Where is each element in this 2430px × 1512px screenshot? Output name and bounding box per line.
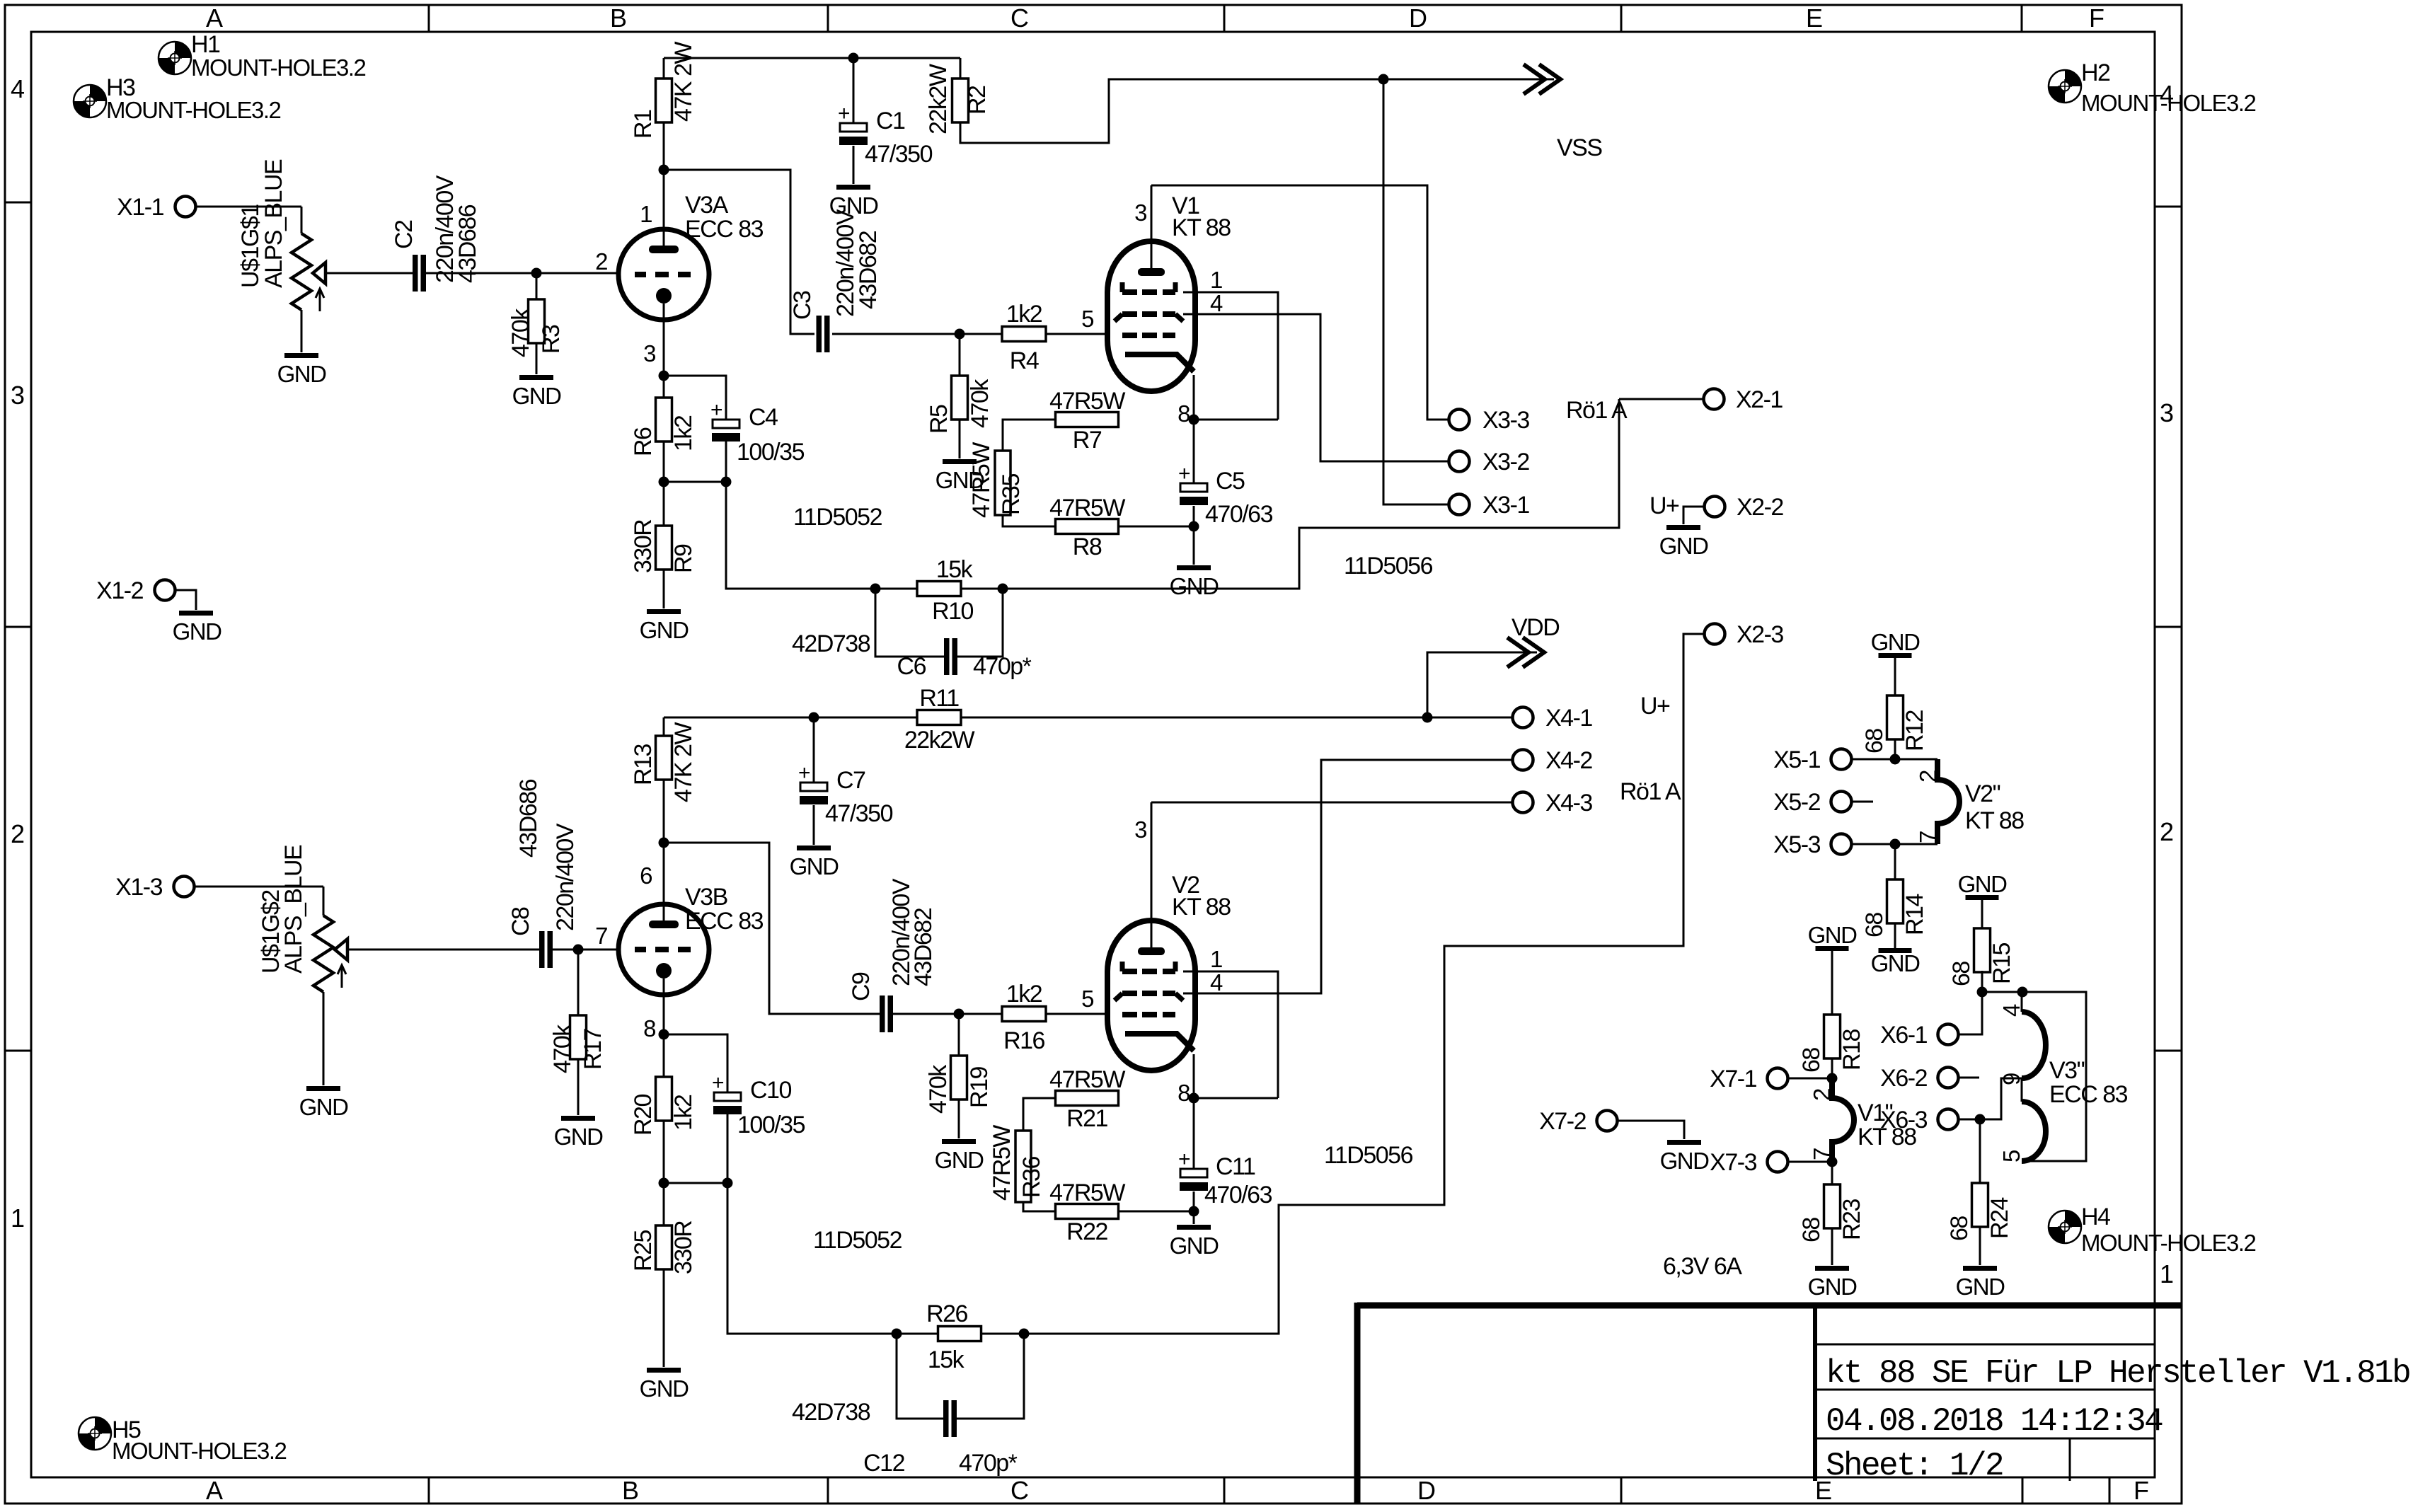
svg-text:47/350: 47/350 (865, 141, 933, 168)
svg-text:C6: C6 (897, 653, 926, 680)
svg-text:V3": V3" (2049, 1057, 2085, 1084)
svg-text:C: C (1010, 4, 1029, 33)
svg-text:47R5W: 47R5W (1049, 1179, 1125, 1206)
svg-text:+: + (838, 102, 850, 125)
svg-text:U+: U+ (1649, 492, 1679, 519)
svg-text:ECC 83: ECC 83 (2049, 1081, 2128, 1108)
svg-text:X4-1: X4-1 (1545, 705, 1592, 732)
svg-text:GND: GND (1871, 629, 1921, 655)
svg-text:C5: C5 (1216, 468, 1245, 495)
svg-text:ALPS_BLUE: ALPS_BLUE (260, 159, 287, 288)
svg-text:470p*: 470p* (973, 653, 1032, 680)
svg-text:GND: GND (1956, 1274, 2005, 1300)
svg-text:X1-3: X1-3 (115, 874, 162, 901)
svg-text:47R5W: 47R5W (1049, 1066, 1125, 1093)
svg-text:+: + (1178, 1148, 1190, 1171)
svg-text:C: C (1010, 1476, 1029, 1505)
svg-text:3: 3 (1134, 816, 1146, 843)
svg-text:R22: R22 (1066, 1218, 1107, 1245)
svg-text:MOUNT-HOLE3.2: MOUNT-HOLE3.2 (2081, 90, 2256, 116)
svg-text:100/35: 100/35 (737, 439, 805, 466)
svg-text:330R: 330R (670, 1221, 697, 1274)
svg-text:2: 2 (595, 248, 607, 275)
svg-text:1: 1 (2160, 1259, 2174, 1288)
svg-text:C10: C10 (750, 1077, 791, 1104)
svg-text:47K 2W: 47K 2W (670, 42, 697, 122)
svg-text:R26: R26 (926, 1300, 967, 1327)
svg-text:E: E (1806, 4, 1823, 33)
svg-text:2: 2 (2160, 817, 2174, 846)
svg-text:7: 7 (1915, 831, 1941, 843)
svg-text:5: 5 (1081, 306, 1093, 332)
svg-text:X5-1: X5-1 (1773, 746, 1820, 773)
svg-text:1k2: 1k2 (670, 1095, 697, 1131)
svg-text:R3: R3 (538, 325, 565, 354)
svg-text:R13: R13 (630, 744, 657, 785)
svg-text:1: 1 (11, 1204, 25, 1233)
svg-text:3: 3 (643, 340, 655, 367)
svg-text:47R5W: 47R5W (1049, 388, 1125, 415)
svg-text:47/350: 47/350 (825, 800, 893, 827)
svg-text:R17: R17 (580, 1029, 606, 1070)
svg-text:F: F (2089, 4, 2104, 33)
svg-text:4: 4 (1210, 290, 1223, 316)
svg-text:X7-2: X7-2 (1539, 1108, 1586, 1135)
svg-text:X2-3: X2-3 (1737, 621, 1783, 648)
svg-text:GND: GND (554, 1124, 604, 1150)
svg-text:68: 68 (1798, 1218, 1825, 1242)
svg-text:470k: 470k (549, 1024, 576, 1073)
svg-text:V3B: V3B (685, 884, 727, 911)
svg-text:R5: R5 (926, 405, 952, 434)
svg-text:2: 2 (11, 819, 25, 848)
svg-text:68: 68 (1798, 1048, 1825, 1073)
svg-text:6,3V 6A: 6,3V 6A (1663, 1253, 1742, 1280)
svg-text:R1: R1 (630, 110, 657, 139)
svg-text:X3-3: X3-3 (1482, 407, 1529, 434)
svg-text:GND: GND (790, 853, 839, 879)
svg-text:GND: GND (640, 1375, 689, 1402)
svg-text:43D686: 43D686 (454, 204, 481, 283)
svg-text:C4: C4 (749, 404, 778, 431)
svg-text:11D5052: 11D5052 (813, 1227, 902, 1254)
svg-text:11D5056: 11D5056 (1324, 1142, 1413, 1169)
svg-text:15k: 15k (936, 556, 974, 583)
svg-text:43D682: 43D682 (855, 231, 882, 309)
svg-text:X7-1: X7-1 (1710, 1066, 1756, 1092)
svg-text:X6-1: X6-1 (1880, 1022, 1927, 1049)
svg-text:1: 1 (1210, 267, 1222, 293)
svg-text:470k: 470k (967, 379, 994, 428)
svg-text:U+: U+ (1640, 693, 1670, 720)
svg-text:R25: R25 (630, 1230, 657, 1271)
svg-text:47R5W: 47R5W (989, 1125, 1015, 1201)
svg-text:4: 4 (1998, 1004, 2025, 1017)
svg-text:X2-1: X2-1 (1736, 386, 1783, 413)
svg-text:R14: R14 (1901, 894, 1928, 935)
svg-text:R15: R15 (1988, 943, 2015, 984)
svg-text:R23: R23 (1838, 1199, 1865, 1240)
svg-text:47K 2W: 47K 2W (670, 722, 697, 802)
svg-text:470k: 470k (925, 1064, 952, 1114)
svg-text:GND: GND (1808, 922, 1858, 948)
svg-text:11D5056: 11D5056 (1344, 553, 1433, 579)
svg-text:R20: R20 (630, 1095, 657, 1136)
svg-text:R12: R12 (1901, 710, 1928, 751)
svg-text:kt 88 SE Für LP Hersteller V1.: kt 88 SE Für LP Hersteller V1.81b (1826, 1355, 2409, 1392)
svg-text:R8: R8 (1073, 533, 1102, 560)
svg-text:100/35: 100/35 (737, 1112, 805, 1138)
svg-text:VSS: VSS (1557, 134, 1602, 161)
svg-text:11D5052: 11D5052 (793, 504, 882, 531)
svg-text:R6: R6 (630, 427, 657, 456)
svg-text:+: + (798, 761, 810, 785)
svg-text:X5-3: X5-3 (1773, 831, 1820, 858)
svg-text:V3A: V3A (685, 192, 729, 219)
svg-text:3: 3 (1134, 200, 1146, 226)
svg-text:GND: GND (1660, 1148, 1710, 1174)
svg-text:42D738: 42D738 (792, 1399, 870, 1426)
svg-text:ECC 83: ECC 83 (685, 908, 764, 935)
svg-text:KT 88: KT 88 (1965, 807, 2024, 834)
svg-text:H2: H2 (2081, 59, 2110, 86)
svg-text:GND: GND (1871, 950, 1921, 976)
svg-text:X5-2: X5-2 (1773, 789, 1820, 816)
svg-text:1k2: 1k2 (670, 415, 697, 451)
svg-text:X3-2: X3-2 (1482, 449, 1529, 475)
svg-text:43D682: 43D682 (910, 908, 937, 986)
svg-text:GND: GND (1659, 533, 1709, 559)
svg-text:8: 8 (1177, 1080, 1190, 1106)
svg-text:68: 68 (1861, 913, 1888, 937)
svg-text:22k2W: 22k2W (925, 64, 952, 134)
svg-text:B: B (622, 1476, 639, 1505)
svg-text:MOUNT-HOLE3.2: MOUNT-HOLE3.2 (2081, 1230, 2256, 1256)
svg-text:47R5W: 47R5W (1049, 495, 1125, 521)
svg-text:V1": V1" (1858, 1100, 1893, 1126)
svg-text:5: 5 (1998, 1150, 2025, 1162)
svg-text:68: 68 (1946, 1216, 1973, 1241)
svg-text:68: 68 (1948, 962, 1975, 986)
svg-text:X4-3: X4-3 (1545, 790, 1592, 816)
svg-text:GND: GND (173, 618, 222, 645)
svg-text:X4-2: X4-2 (1545, 747, 1592, 774)
svg-text:F: F (2134, 1476, 2149, 1505)
svg-text:R4: R4 (1010, 347, 1039, 374)
svg-text:15k: 15k (928, 1346, 965, 1373)
svg-text:R35: R35 (998, 474, 1025, 515)
svg-text:4: 4 (11, 74, 25, 103)
svg-text:X1-1: X1-1 (117, 194, 163, 221)
svg-text:GND: GND (512, 383, 562, 409)
svg-text:GND: GND (640, 617, 689, 643)
svg-text:X1-2: X1-2 (96, 577, 143, 604)
svg-text:6: 6 (640, 862, 652, 889)
svg-text:47R5W: 47R5W (968, 442, 995, 518)
svg-text:D: D (1409, 4, 1427, 33)
svg-text:42D738: 42D738 (792, 630, 870, 657)
svg-text:3: 3 (2160, 398, 2174, 427)
svg-text:220n/400V: 220n/400V (552, 823, 579, 931)
svg-text:470/63: 470/63 (1204, 1182, 1272, 1208)
svg-text:5: 5 (1081, 986, 1093, 1012)
svg-text:R11: R11 (919, 685, 959, 712)
svg-text:C7: C7 (836, 767, 865, 794)
svg-text:GND: GND (1958, 871, 2008, 897)
svg-text:R19: R19 (966, 1067, 993, 1108)
svg-text:470p*: 470p* (959, 1450, 1018, 1477)
svg-text:3: 3 (11, 381, 25, 410)
svg-text:R36: R36 (1018, 1157, 1045, 1198)
svg-text:4: 4 (1210, 969, 1223, 996)
svg-text:R7: R7 (1073, 427, 1102, 454)
svg-text:Sheet: 1/2: Sheet: 1/2 (1826, 1448, 2003, 1484)
svg-text:+: + (712, 1071, 724, 1095)
svg-text:C3: C3 (789, 291, 816, 320)
svg-text:GND: GND (935, 1147, 984, 1173)
svg-text:1: 1 (640, 201, 652, 227)
svg-text:ALPS_BLUE: ALPS_BLUE (280, 845, 307, 974)
svg-text:C9: C9 (848, 972, 875, 1001)
svg-text:7: 7 (595, 923, 607, 949)
svg-text:KT 88: KT 88 (1172, 214, 1231, 241)
svg-text:8: 8 (643, 1015, 655, 1041)
svg-text:GND: GND (1170, 1233, 1219, 1259)
svg-text:X2-2: X2-2 (1737, 494, 1783, 521)
svg-text:43D686: 43D686 (515, 779, 542, 858)
svg-text:R18: R18 (1838, 1029, 1865, 1070)
svg-text:GND: GND (277, 361, 327, 387)
svg-text:MOUNT-HOLE3.2: MOUNT-HOLE3.2 (106, 97, 281, 123)
svg-text:470/63: 470/63 (1205, 501, 1273, 528)
svg-text:C12: C12 (863, 1450, 904, 1477)
svg-text:R16: R16 (1003, 1027, 1044, 1054)
svg-text:C2: C2 (391, 220, 418, 249)
svg-text:470k: 470k (507, 308, 534, 357)
svg-text:C1: C1 (876, 108, 905, 134)
svg-text:2: 2 (1809, 1088, 1835, 1101)
svg-text:MOUNT-HOLE3.2: MOUNT-HOLE3.2 (191, 54, 366, 81)
svg-text:KT 88: KT 88 (1858, 1124, 1916, 1150)
svg-text:8: 8 (1177, 400, 1190, 427)
svg-text:X7-3: X7-3 (1710, 1149, 1756, 1176)
svg-text:A: A (206, 1476, 223, 1505)
svg-text:GND: GND (1170, 573, 1219, 599)
svg-text:330R: 330R (630, 520, 657, 573)
svg-text:+: + (1178, 462, 1190, 485)
svg-text:Rö1 A: Rö1 A (1620, 778, 1681, 805)
svg-text:D: D (1417, 1476, 1436, 1505)
svg-text:KT 88: KT 88 (1172, 894, 1231, 921)
svg-text:C8: C8 (507, 907, 534, 936)
svg-text:R9: R9 (670, 544, 697, 573)
svg-text:R2: R2 (964, 86, 991, 115)
svg-text:GND: GND (1808, 1274, 1858, 1300)
svg-text:1k2: 1k2 (1006, 301, 1042, 328)
svg-text:H4: H4 (2081, 1204, 2110, 1230)
svg-text:R10: R10 (932, 598, 973, 625)
svg-text:R21: R21 (1066, 1105, 1107, 1132)
svg-text:X3-1: X3-1 (1482, 492, 1529, 519)
svg-text:VDD: VDD (1511, 614, 1559, 641)
svg-text:B: B (610, 4, 627, 33)
svg-text:ECC 83: ECC 83 (685, 216, 764, 243)
svg-text:2: 2 (1915, 770, 1941, 783)
svg-text:04.08.2018 14:12:34: 04.08.2018 14:12:34 (1826, 1403, 2163, 1440)
svg-text:22k2W: 22k2W (904, 727, 975, 754)
svg-text:GND: GND (299, 1094, 349, 1120)
svg-text:MOUNT-HOLE3.2: MOUNT-HOLE3.2 (112, 1438, 287, 1464)
svg-text:+: + (710, 398, 722, 422)
svg-text:68: 68 (1861, 729, 1888, 754)
svg-text:A: A (206, 4, 223, 33)
svg-text:1: 1 (1210, 946, 1222, 972)
svg-text:R24: R24 (1986, 1198, 2013, 1239)
svg-text:1k2: 1k2 (1006, 981, 1042, 1008)
svg-text:V2": V2" (1965, 780, 2000, 807)
svg-text:X6-2: X6-2 (1880, 1065, 1927, 1092)
svg-text:C11: C11 (1216, 1153, 1255, 1180)
